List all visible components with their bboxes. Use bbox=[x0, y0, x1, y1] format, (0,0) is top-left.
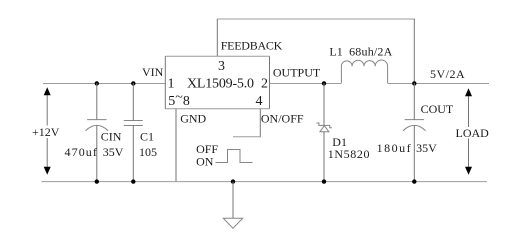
label U1 pin 4 bbox=[256, 94, 263, 109]
label COUT bbox=[421, 102, 454, 116]
node D1 bottom junction bbox=[322, 179, 326, 183]
node diode junction bbox=[322, 81, 326, 85]
svg-text:4: 4 bbox=[256, 94, 263, 109]
node C1 bottom junction bbox=[131, 179, 135, 183]
capacitor CIN bbox=[86, 83, 109, 182]
op-amp U1 XL1509-5.0 box bbox=[165, 56, 269, 109]
label LOAD bbox=[456, 126, 490, 140]
node COUT bottom junction bbox=[412, 179, 416, 183]
ground bbox=[223, 182, 242, 229]
ON/OFF control pulse waveform bbox=[216, 150, 253, 163]
label CIN value 470uf bbox=[65, 145, 99, 159]
label ON level bbox=[196, 155, 214, 169]
inductor L1 bbox=[341, 60, 387, 83]
svg-text:470uf: 470uf bbox=[65, 145, 99, 159]
label D1 part 1N5820 bbox=[328, 147, 370, 161]
svg-text:XL1509-5.0: XL1509-5.0 bbox=[187, 77, 254, 92]
label COUT value 180uf bbox=[377, 141, 413, 155]
node CIN top junction bbox=[95, 81, 99, 85]
svg-text:OUTPUT: OUTPUT bbox=[273, 66, 321, 80]
label U1 pins 5~8 bbox=[168, 90, 190, 109]
label C1 value 105 bbox=[139, 145, 157, 159]
LOAD arrow bbox=[465, 88, 472, 174]
label 5V/2A net bbox=[430, 67, 465, 81]
label FEEDBACK bbox=[221, 38, 283, 52]
label CIN voltage 35V bbox=[103, 145, 124, 159]
svg-text:180uf: 180uf bbox=[377, 141, 413, 155]
label +12V bbox=[32, 125, 60, 139]
label GND bbox=[180, 112, 206, 126]
wire ON/OFF pin 4 bbox=[233, 109, 260, 137]
wire ground bottom rail bbox=[42, 181, 488, 183]
svg-text:35V: 35V bbox=[103, 145, 124, 159]
svg-text:GND: GND bbox=[180, 112, 206, 126]
svg-text:VIN: VIN bbox=[142, 65, 164, 79]
wire OUTPUT from pin 2 bbox=[270, 83, 342, 85]
svg-text:3: 3 bbox=[218, 59, 225, 74]
label D1 bbox=[332, 135, 347, 149]
wire VIN top rail left bbox=[43, 83, 165, 85]
svg-text:CIN: CIN bbox=[101, 130, 122, 144]
svg-text:2: 2 bbox=[261, 77, 268, 92]
svg-text:C1: C1 bbox=[140, 130, 154, 144]
svg-text:COUT: COUT bbox=[421, 102, 454, 116]
node C1 top junction bbox=[131, 81, 135, 85]
svg-text:68uh/2A: 68uh/2A bbox=[349, 45, 393, 59]
wire GND pin 5~8 to ground rail bbox=[175, 109, 177, 182]
diode D1 1N5820 bbox=[317, 83, 333, 182]
svg-text:105: 105 bbox=[139, 145, 157, 159]
svg-text:1N5820: 1N5820 bbox=[328, 147, 370, 161]
label U1 pin 1 bbox=[168, 77, 175, 92]
label U1 pin 2 bbox=[261, 77, 268, 92]
+12V source arrow bbox=[44, 87, 51, 174]
label OUTPUT bbox=[273, 66, 321, 80]
svg-text:ON: ON bbox=[196, 155, 214, 169]
label U1 part XL1509-5.0 bbox=[187, 77, 254, 92]
label COUT voltage 35V bbox=[416, 141, 437, 155]
label OFF level bbox=[196, 142, 218, 156]
capacitor C1 bbox=[124, 83, 143, 182]
label VIN net bbox=[142, 65, 164, 79]
svg-text:LOAD: LOAD bbox=[456, 126, 490, 140]
svg-text:+12V: +12V bbox=[32, 125, 60, 139]
svg-text:FEEDBACK: FEEDBACK bbox=[221, 38, 283, 52]
svg-text:1: 1 bbox=[168, 77, 175, 92]
node ground junction bbox=[231, 179, 235, 183]
label ON/OFF bbox=[261, 112, 304, 126]
svg-text:L1: L1 bbox=[329, 45, 342, 59]
wire FEEDBACK from pin 3 bbox=[217, 19, 415, 83]
svg-text:35V: 35V bbox=[416, 141, 437, 155]
svg-text:ON/OFF: ON/OFF bbox=[261, 112, 304, 126]
label L1 value 68uh/2A bbox=[349, 45, 393, 59]
label U1 pin 3 bbox=[218, 59, 225, 74]
label CIN bbox=[101, 130, 122, 144]
label C1 bbox=[140, 130, 154, 144]
wire output rail right bbox=[388, 83, 489, 85]
node COUT junction bbox=[412, 81, 416, 85]
node CIN bottom junction bbox=[95, 179, 99, 183]
svg-text:5V/2A: 5V/2A bbox=[430, 67, 465, 81]
label L1 bbox=[329, 45, 342, 59]
capacitor COUT bbox=[403, 83, 426, 182]
